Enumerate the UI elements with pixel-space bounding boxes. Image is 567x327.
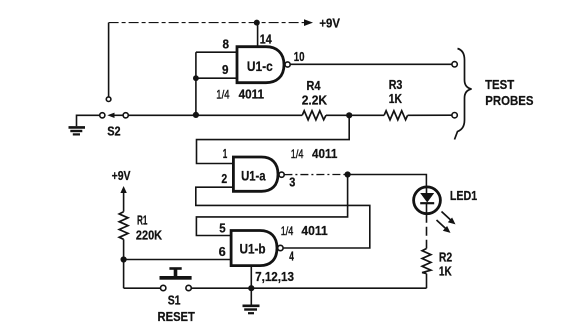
svg-text:8: 8 bbox=[223, 37, 230, 51]
wire junction to R3 bbox=[349, 114, 384, 116]
switch S2 upper throw terminal bbox=[106, 97, 111, 102]
switch S2 ground wire bbox=[77, 115, 100, 126]
resistor R3 bbox=[384, 78, 408, 120]
wire R1 down to bottom rail bbox=[123, 239, 125, 288]
switch S2 right terminal bbox=[123, 113, 128, 118]
svg-text:4011: 4011 bbox=[301, 224, 327, 238]
switch S1 pushbutton actuator bbox=[160, 267, 192, 280]
op-amp U1-c NAND gate bbox=[237, 47, 284, 83]
wire ground stub bbox=[250, 288, 252, 305]
svg-text:U1-a: U1-a bbox=[241, 169, 266, 184]
wire pin 3 output to junction bbox=[284, 174, 347, 176]
svg-text:4011: 4011 bbox=[312, 147, 337, 161]
wire pin 6 line bbox=[124, 259, 232, 261]
op-amp U1-b NAND gate bbox=[231, 231, 277, 266]
test probe lower terminal bbox=[452, 113, 457, 118]
svg-text:TEST: TEST bbox=[485, 78, 514, 92]
test probe upper terminal bbox=[452, 62, 457, 67]
pin label 14 bbox=[260, 33, 272, 47]
wire junction to LED corner bbox=[348, 175, 427, 188]
svg-text:U1-c: U1-c bbox=[247, 59, 273, 74]
svg-text:1/4: 1/4 bbox=[291, 147, 304, 161]
label +9V top bbox=[319, 16, 340, 30]
svg-text:1K: 1K bbox=[389, 92, 402, 106]
svg-text:1: 1 bbox=[223, 147, 228, 161]
node junction dot R4/R3 bbox=[346, 112, 352, 118]
svg-text:14: 14 bbox=[260, 33, 272, 47]
svg-text:4: 4 bbox=[289, 249, 294, 263]
node junction dot top rail / pin14 bbox=[254, 20, 260, 26]
wire pin 10 output line to upper probe bbox=[290, 63, 452, 65]
+9V arrow left (up) bbox=[120, 186, 126, 212]
+9V arrow top bbox=[304, 19, 313, 26]
wire R2 to bottom rail bbox=[426, 274, 428, 289]
bubble U1-b output bbox=[278, 245, 283, 250]
svg-text:U1-b: U1-b bbox=[240, 242, 266, 257]
label +9V left bbox=[112, 169, 131, 183]
switch S2 pole terminal bbox=[100, 113, 105, 118]
svg-text:3: 3 bbox=[289, 175, 295, 189]
LED1 emission arrows bbox=[437, 212, 456, 233]
switch S2 wiper arrow bbox=[107, 113, 123, 118]
label TEST PROBES bbox=[485, 78, 533, 108]
label S1 bbox=[168, 294, 181, 308]
node junction dot pin3 bbox=[345, 171, 351, 177]
svg-text:RESET: RESET bbox=[158, 310, 196, 324]
svg-text:PROBES: PROBES bbox=[485, 94, 533, 108]
LED LED1 bbox=[414, 187, 441, 214]
wire pin 8 stub bbox=[196, 51, 237, 53]
svg-text:220K: 220K bbox=[136, 229, 162, 243]
node junction dot pin9 bbox=[193, 75, 199, 81]
label 1/4 4011 (U1-c) bbox=[216, 87, 264, 101]
svg-text:7,12,13: 7,12,13 bbox=[255, 270, 294, 284]
svg-text:+9V: +9V bbox=[112, 169, 131, 183]
wire pin3 junction down to pin 5 loop bbox=[196, 175, 347, 236]
wire pin 9 stub bbox=[196, 77, 237, 79]
resistor R4 bbox=[302, 79, 327, 120]
bubble U1-c output bbox=[285, 62, 290, 67]
node junction dot R1/pin6 bbox=[121, 256, 127, 262]
wire pin 14 vertical bbox=[257, 23, 259, 47]
resistor R1 bbox=[119, 212, 162, 243]
wire vertical joining pins 8,9 down to rail bbox=[195, 52, 197, 115]
switch S1 left terminal bbox=[161, 285, 166, 290]
ground symbol (S2) bbox=[69, 127, 86, 134]
svg-text:2.2K: 2.2K bbox=[302, 94, 327, 108]
ground symbol (bottom) bbox=[243, 306, 260, 313]
wire +9V top rail vertical from S2 throw bbox=[108, 23, 110, 97]
switch S1 right terminal bbox=[186, 285, 191, 290]
wire sense rail S2 to R4 bbox=[128, 114, 302, 116]
svg-text:1K: 1K bbox=[439, 265, 452, 279]
svg-text:2: 2 bbox=[221, 172, 227, 186]
label 1/4 4011 (U1-a) bbox=[291, 147, 338, 161]
svg-text:10: 10 bbox=[294, 50, 305, 64]
svg-text:5: 5 bbox=[219, 221, 225, 235]
svg-text:4011: 4011 bbox=[239, 87, 264, 101]
pin label 9 bbox=[222, 63, 229, 77]
wire LED to R2 bbox=[426, 214, 428, 249]
bubble U1-a output bbox=[279, 172, 284, 177]
svg-text:LED1: LED1 bbox=[450, 189, 477, 203]
svg-text:S2: S2 bbox=[107, 125, 120, 139]
label LED1 bbox=[450, 189, 477, 203]
wire R3 to lower probe bbox=[408, 114, 452, 116]
pin label 4 bbox=[289, 249, 294, 263]
wire bottom rail left bbox=[124, 287, 161, 289]
label RESET bbox=[158, 310, 196, 324]
wire pin 2 to pin 4 loop bbox=[196, 187, 370, 248]
svg-text:R3: R3 bbox=[389, 78, 403, 92]
pin label 1 bbox=[223, 147, 228, 161]
svg-text:R2: R2 bbox=[439, 251, 452, 265]
wire bottom rail right bbox=[191, 287, 426, 289]
svg-text:1/4: 1/4 bbox=[281, 224, 294, 238]
label 1/4 4011 (U1-b) bbox=[281, 224, 328, 238]
pin label 2 bbox=[221, 172, 227, 186]
pin label 5 bbox=[219, 221, 225, 235]
svg-text:R1: R1 bbox=[137, 214, 148, 228]
op-amp U1-a NAND gate bbox=[233, 157, 278, 191]
pin label 6 bbox=[219, 245, 226, 259]
svg-text:+9V: +9V bbox=[319, 16, 340, 30]
pin label 10 bbox=[294, 50, 305, 64]
svg-text:R4: R4 bbox=[306, 79, 320, 93]
brace test probes bbox=[455, 49, 472, 140]
svg-text:6: 6 bbox=[219, 245, 226, 259]
label S2 bbox=[107, 125, 120, 139]
svg-text:S1: S1 bbox=[168, 294, 181, 308]
wire feedback R4/R3 junction to pin 1 bbox=[197, 115, 350, 163]
wire R4 to junction bbox=[326, 114, 349, 116]
pin label 8 bbox=[223, 37, 230, 51]
wire +9V top rail horizontal bbox=[109, 22, 304, 24]
node junction dot ground bbox=[248, 285, 254, 291]
svg-text:9: 9 bbox=[222, 63, 229, 77]
pin label 7,12,13 bbox=[255, 270, 294, 284]
pin label 3 bbox=[289, 175, 295, 189]
svg-text:1/4: 1/4 bbox=[216, 87, 230, 101]
node junction dot rail bbox=[193, 112, 199, 118]
resistor R2 bbox=[422, 249, 452, 279]
wire pin 7 stem bbox=[250, 266, 252, 289]
